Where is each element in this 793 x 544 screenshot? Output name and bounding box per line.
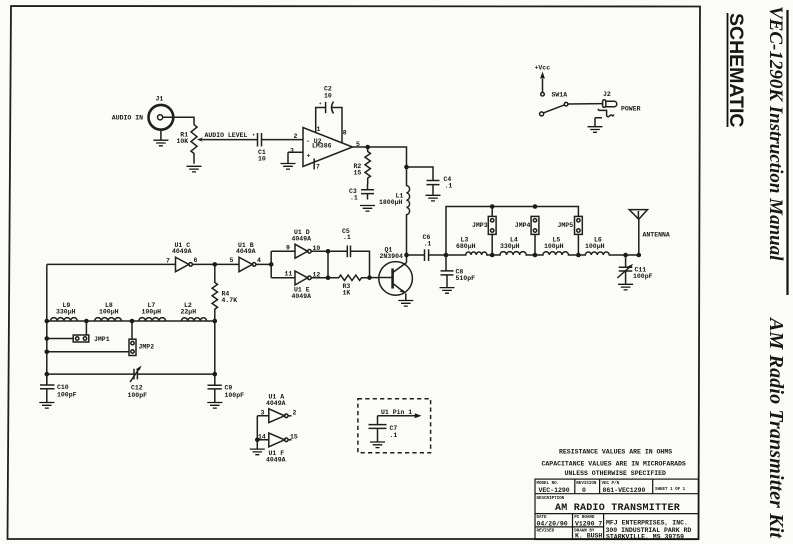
bottom tank wire with C12 bbox=[47, 373, 215, 375]
connector J1 bbox=[149, 105, 174, 130]
junction bbox=[213, 319, 218, 324]
svg-text:100pF: 100pF bbox=[128, 392, 148, 399]
svg-text:8: 8 bbox=[343, 130, 347, 137]
oscillator: left rail bbox=[47, 263, 176, 265]
svg-text:10: 10 bbox=[324, 93, 332, 100]
svg-text:2N3904: 2N3904 bbox=[380, 253, 404, 260]
svg-text:AM Radio Transmitter Kit: AM Radio Transmitter Kit bbox=[765, 316, 787, 539]
junction bbox=[367, 275, 372, 280]
R1 wiper arrow bbox=[199, 139, 206, 141]
wire J1 to R1 bbox=[163, 117, 194, 125]
svg-text:7: 7 bbox=[166, 258, 170, 265]
jumper JMP4 bbox=[531, 216, 539, 234]
junction bbox=[623, 253, 628, 258]
svg-text:K. BUSH: K. BUSH bbox=[575, 532, 602, 539]
svg-text:510pF: 510pF bbox=[456, 275, 476, 282]
junction bbox=[326, 276, 331, 281]
svg-text:STARKVILLE, MS 39759: STARKVILLE, MS 39759 bbox=[606, 534, 684, 541]
svg-text:861-VEC1290: 861-VEC1290 bbox=[603, 487, 646, 494]
svg-text:REVISED: REVISED bbox=[537, 529, 555, 533]
collector junction bbox=[406, 255, 408, 263]
ground bbox=[440, 288, 455, 294]
capacitor C9 bbox=[208, 374, 222, 402]
svg-text:AM RADIO TRANSMITTER: AM RADIO TRANSMITTER bbox=[555, 503, 680, 514]
U1 pin1 arrow bbox=[378, 415, 419, 417]
svg-text:LM386: LM386 bbox=[312, 143, 332, 150]
junction bbox=[404, 253, 409, 258]
ground bbox=[618, 284, 633, 290]
svg-text:04/20/90: 04/20/90 bbox=[537, 521, 568, 528]
junction bbox=[130, 319, 135, 324]
power: +Vcc arrow bbox=[542, 79, 544, 92]
svg-text:100pF: 100pF bbox=[57, 391, 77, 398]
inverter U1D bbox=[295, 244, 308, 258]
pin3 stub + ground bbox=[288, 152, 303, 163]
svg-text:VEC-1290K Instruction Manual: VEC-1290K Instruction Manual bbox=[765, 6, 786, 261]
svg-text:10K: 10K bbox=[177, 138, 189, 145]
svg-text:11: 11 bbox=[285, 270, 293, 277]
svg-text:100μH: 100μH bbox=[544, 243, 564, 250]
svg-text:J2: J2 bbox=[603, 91, 611, 98]
junction bbox=[576, 253, 581, 258]
svg-text:22μH: 22μH bbox=[181, 309, 197, 316]
junction bbox=[45, 336, 50, 341]
svg-text:4: 4 bbox=[257, 257, 261, 264]
svg-text:C12: C12 bbox=[131, 385, 143, 392]
junction bbox=[255, 438, 260, 443]
inverter U1B bbox=[239, 257, 252, 272]
junction bbox=[533, 253, 538, 258]
svg-text:JMP2: JMP2 bbox=[139, 344, 155, 351]
svg-text:15: 15 bbox=[354, 170, 362, 177]
output pin5 wire bbox=[353, 147, 407, 167]
junction bbox=[637, 253, 642, 258]
svg-text:1K: 1K bbox=[343, 290, 351, 297]
svg-text:.1: .1 bbox=[424, 241, 432, 248]
capacitor C5 bbox=[328, 246, 370, 278]
variable capacitor C11 bbox=[619, 255, 633, 284]
ground bbox=[187, 166, 202, 172]
inductor L4 bbox=[492, 252, 535, 255]
svg-text:100μH: 100μH bbox=[585, 243, 605, 250]
resistor R2 bbox=[365, 147, 370, 184]
svg-text:2: 2 bbox=[294, 133, 298, 140]
junction bbox=[326, 249, 331, 254]
svg-text:DESCRIPTION: DESCRIPTION bbox=[537, 497, 565, 501]
top rail of jumpers bbox=[446, 207, 578, 256]
connector J2 bbox=[603, 100, 606, 108]
resistor R4 bbox=[212, 264, 217, 321]
ground bbox=[160, 130, 162, 140]
svg-text:VEC P/N: VEC P/N bbox=[602, 481, 620, 486]
svg-text:100μH: 100μH bbox=[99, 309, 119, 316]
junction bbox=[269, 262, 274, 267]
inverter U1E bbox=[295, 271, 308, 285]
ground bbox=[250, 449, 265, 455]
svg-text:POWER: POWER bbox=[621, 106, 641, 113]
capacitor C4 bbox=[427, 181, 440, 195]
svg-text:2: 2 bbox=[293, 409, 297, 416]
right rail of tank bbox=[214, 321, 216, 374]
svg-text:U1 Pin 1: U1 Pin 1 bbox=[381, 409, 412, 416]
svg-text:4049A: 4049A bbox=[172, 248, 192, 255]
svg-text:VEC-1290: VEC-1290 bbox=[539, 487, 570, 494]
junction bbox=[533, 204, 538, 209]
ground bbox=[207, 403, 222, 409]
svg-text:10: 10 bbox=[258, 155, 266, 162]
inductor L8 bbox=[95, 318, 122, 321]
resistor R3 bbox=[328, 275, 370, 280]
svg-text:.1: .1 bbox=[343, 234, 351, 241]
pin7 tick bbox=[313, 159, 315, 170]
svg-text:+: + bbox=[307, 153, 311, 160]
inductor L9 bbox=[51, 318, 78, 321]
svg-text:7: 7 bbox=[316, 164, 320, 171]
junction bbox=[45, 350, 50, 355]
svg-text:9: 9 bbox=[286, 245, 290, 252]
inductor L7 bbox=[139, 318, 166, 321]
svg-text:5: 5 bbox=[356, 141, 360, 148]
svg-text:12: 12 bbox=[313, 271, 321, 278]
op-amp U2 bbox=[303, 128, 353, 167]
capacitor C1 bbox=[258, 133, 262, 147]
ground bbox=[281, 164, 296, 170]
junction node bbox=[404, 165, 409, 170]
svg-text:14: 14 bbox=[258, 433, 266, 440]
svg-text:SW1A: SW1A bbox=[552, 92, 568, 99]
wires to U1D / U1E bbox=[271, 251, 295, 277]
jumper JMP1 bbox=[47, 321, 87, 339]
svg-text:1800μH: 1800μH bbox=[379, 199, 403, 206]
J2 sleeve contact bbox=[598, 109, 614, 117]
svg-text:RESISTANCE VALUES ARE IN OHMS: RESISTANCE VALUES ARE IN OHMS bbox=[559, 449, 672, 456]
svg-text:JMP1: JMP1 bbox=[94, 336, 110, 343]
inductor L1 bbox=[407, 167, 410, 255]
svg-text:15: 15 bbox=[290, 433, 298, 440]
svg-text:5: 5 bbox=[230, 257, 234, 264]
svg-text:AUDIO LEVEL: AUDIO LEVEL bbox=[205, 132, 248, 139]
svg-text:4049A: 4049A bbox=[266, 457, 286, 464]
junction bbox=[213, 372, 218, 377]
ground bbox=[588, 127, 603, 133]
ground bbox=[360, 206, 375, 212]
junction bbox=[213, 262, 218, 267]
svg-text:4.7K: 4.7K bbox=[222, 297, 238, 304]
inductor L5 bbox=[535, 252, 578, 255]
ground bbox=[153, 140, 168, 146]
svg-text:+Vcc: +Vcc bbox=[535, 65, 551, 72]
junction bbox=[490, 253, 495, 258]
wire wiper to C1 bbox=[205, 139, 258, 141]
svg-text:UNLESS OTHERWISE SPECIFIED: UNLESS OTHERWISE SPECIFIED bbox=[565, 470, 667, 477]
LC tank top wire bbox=[47, 320, 215, 322]
transistor Q1 bbox=[379, 262, 413, 296]
svg-text:680μH: 680μH bbox=[456, 243, 476, 250]
ground bbox=[426, 195, 441, 201]
spare inverters U1A / U1F bbox=[257, 409, 284, 423]
capacitor C7 bbox=[369, 416, 387, 442]
svg-text:JMP5: JMP5 bbox=[558, 222, 574, 229]
jumper JMP2 bbox=[47, 321, 133, 352]
svg-text:4049A: 4049A bbox=[292, 235, 312, 242]
svg-text:AUDIO IN: AUDIO IN bbox=[112, 115, 143, 122]
svg-text:.1: .1 bbox=[445, 183, 453, 190]
inverter U1C bbox=[176, 257, 189, 272]
jumper JMP5 bbox=[575, 216, 583, 234]
svg-text:330μH: 330μH bbox=[56, 309, 76, 316]
antenna bbox=[629, 210, 647, 255]
svg-text:100μH: 100μH bbox=[142, 309, 162, 316]
junction bbox=[365, 145, 370, 150]
header rule bbox=[786, 10, 788, 295]
junction bbox=[45, 319, 50, 324]
wire to J2 bbox=[568, 103, 603, 105]
svg-text:JMP3: JMP3 bbox=[472, 222, 488, 229]
jumper JMP3 bbox=[491, 207, 493, 217]
svg-text:0: 0 bbox=[582, 487, 586, 494]
wire C1 to op-amp pin2 bbox=[262, 139, 304, 141]
capacitor C10 bbox=[40, 374, 55, 402]
svg-text:V1290_7: V1290_7 bbox=[575, 521, 602, 528]
svg-text:4049A: 4049A bbox=[236, 248, 256, 255]
svg-text:4049A: 4049A bbox=[266, 400, 286, 407]
svg-text:.1: .1 bbox=[390, 432, 398, 439]
svg-text:3: 3 bbox=[290, 148, 294, 155]
svg-text:C7: C7 bbox=[390, 425, 398, 432]
inductor L2 bbox=[181, 318, 206, 321]
svg-text:100pF: 100pF bbox=[633, 273, 653, 280]
svg-text:1: 1 bbox=[317, 126, 321, 133]
svg-text:DATE: DATE bbox=[537, 516, 548, 520]
capacitor C3 bbox=[361, 184, 374, 200]
svg-text:.1: .1 bbox=[350, 195, 358, 202]
variable capacitor C12 bbox=[134, 369, 137, 380]
svg-text:10: 10 bbox=[313, 245, 321, 252]
inductor L6 bbox=[578, 252, 640, 255]
svg-text:C2: C2 bbox=[324, 86, 332, 93]
ground bbox=[370, 442, 385, 448]
ground bbox=[398, 301, 413, 307]
svg-text:C9: C9 bbox=[225, 385, 233, 392]
junction bbox=[84, 319, 89, 324]
dashed box U1 pin1 bbox=[358, 399, 431, 453]
svg-text:MODEL NO.: MODEL NO. bbox=[537, 482, 560, 486]
junction bbox=[490, 204, 495, 209]
svg-text:100pF: 100pF bbox=[225, 392, 245, 399]
svg-text:4049A: 4049A bbox=[292, 293, 312, 300]
wire C6 to node bbox=[429, 254, 446, 256]
capacitor C6 bbox=[425, 249, 429, 261]
inductor L3 bbox=[446, 252, 492, 255]
wire to C4 bbox=[407, 167, 434, 180]
pin1 / pin8 with capacitor C2 bbox=[316, 108, 342, 144]
junction bbox=[45, 372, 50, 377]
wire to C6 bbox=[407, 254, 425, 256]
svg-text:JMP4: JMP4 bbox=[515, 222, 531, 229]
output tie bbox=[327, 251, 329, 277]
svg-text:CAPACITANCE VALUES ARE IN MICR: CAPACITANCE VALUES ARE IN MICROFARADS bbox=[542, 461, 686, 468]
svg-text:6: 6 bbox=[194, 257, 198, 264]
svg-text:ANTENNA: ANTENNA bbox=[643, 232, 670, 239]
svg-text:J1: J1 bbox=[156, 96, 164, 103]
svg-text:330μH: 330μH bbox=[500, 243, 520, 250]
svg-text:MFJ ENTERPRISES, INC.: MFJ ENTERPRISES, INC. bbox=[606, 520, 688, 527]
ground bbox=[39, 403, 54, 409]
junction bbox=[444, 253, 449, 258]
capacitor C8 bbox=[441, 255, 454, 287]
potentiometer R1 bbox=[191, 125, 197, 164]
svg-text:C10: C10 bbox=[57, 384, 69, 391]
svg-text:PC BOARD: PC BOARD bbox=[574, 516, 595, 520]
svg-text:SHEET 1 OF 1: SHEET 1 OF 1 bbox=[655, 488, 686, 492]
svg-text:REVISION: REVISION bbox=[576, 482, 597, 486]
switch SW1A bbox=[540, 112, 544, 116]
svg-text:3: 3 bbox=[261, 410, 265, 417]
